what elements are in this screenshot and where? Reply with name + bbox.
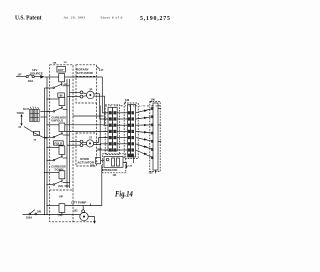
rotary actuator motor M1 — [83, 93, 87, 94]
wire stow to row 5 — [94, 138, 107, 143]
svg-text:YOKE: YOKE — [17, 111, 25, 115]
svg-text:UP: UP — [59, 194, 63, 198]
row 2 wires — [104, 117, 154, 119]
svg-text:14B: 14B — [53, 62, 57, 65]
svg-text:102: 102 — [73, 210, 78, 213]
svg-text:FOLD: FOLD — [54, 141, 62, 145]
row 7 wires — [104, 150, 154, 158]
wire row 4 — [65, 130, 107, 132]
svg-text:IN: IN — [60, 94, 63, 98]
connector strip 136 body — [108, 108, 113, 152]
interlock relay box — [104, 157, 123, 168]
pump module dashed enclosure — [50, 190, 96, 222]
wire rotary to row 3 — [94, 96, 107, 125]
rotary terminal posts — [80, 91, 83, 94]
rotary label box divider — [76, 75, 96, 77]
row 1 pins — [109, 107, 154, 114]
svg-text:129: 129 — [128, 166, 132, 168]
yoke feed wire 1 — [40, 111, 49, 113]
svg-text:LIFT PUMP: LIFT PUMP — [71, 200, 86, 204]
bottom supply bus — [23, 214, 80, 216]
relay IN — [47, 93, 67, 112]
svg-text:105A: 105A — [26, 216, 32, 220]
junction dots — [44, 87, 48, 215]
relay DOWN — [45, 164, 70, 185]
stow actuator terminal wires — [70, 141, 81, 143]
wire rotary to row 2 — [94, 94, 107, 119]
svg-text:15B: 15B — [90, 165, 95, 168]
svg-text:40A: 40A — [28, 79, 34, 83]
rotary actuator dashed box — [76, 65, 96, 103]
stow terminal posts — [80, 140, 83, 143]
row 4 pins — [109, 130, 154, 135]
row 1 wires — [104, 109, 154, 113]
svg-text:151: 151 — [64, 62, 68, 64]
svg-text:57: 57 — [89, 137, 92, 140]
yoke travel arrow — [21, 116, 23, 124]
strip 138 bottom pin — [128, 154, 134, 157]
12V source feed wire — [16, 76, 26, 78]
wire row 7 — [97, 149, 107, 151]
wire stow to row 6 — [94, 143, 107, 146]
svg-text:147: 147 — [18, 73, 23, 76]
pump terminal wire — [82, 206, 84, 210]
circuit breaker 40A — [26, 76, 28, 78]
power switch ON — [29, 213, 31, 215]
connector strip 136 dashed enclosure — [105, 105, 119, 155]
svg-text:Sheet 6 of 6: Sheet 6 of 6 — [101, 16, 123, 20]
relay bus B — [69, 79, 71, 188]
row 5 wires — [104, 138, 154, 142]
relay UNFOLD — [45, 115, 70, 138]
yoke output wire — [24, 127, 47, 139]
svg-text:147: 147 — [99, 68, 104, 72]
rotary actuator terminal wires — [70, 91, 81, 93]
svg-text:Jul. 29, 1993: Jul. 29, 1993 — [64, 16, 86, 21]
row 7 pins — [109, 148, 154, 159]
svg-text:100: 100 — [151, 97, 156, 101]
wire to panel with arrowhead — [34, 76, 40, 78]
junction box 77 — [34, 131, 40, 135]
svg-text:UNFOLD: UNFOLD — [51, 118, 63, 122]
row 2 pins — [109, 115, 154, 120]
relay panel dashed enclosure — [50, 65, 73, 190]
svg-text:77: 77 — [34, 139, 37, 142]
interlock ground stub — [123, 163, 127, 167]
pump ground wire — [88, 217, 94, 222]
wire corridor a — [73, 115, 104, 117]
row 6 pins — [109, 142, 154, 151]
wire corridor b — [65, 124, 105, 126]
left supply bus wire 1 — [46, 77, 48, 215]
row 3 pins — [109, 124, 154, 127]
top bus wire segment — [65, 76, 68, 78]
interlock feeder wire — [99, 106, 101, 158]
left supply bus wire 2 — [44, 88, 46, 215]
svg-text:5,190,275: 5,190,275 — [140, 16, 170, 22]
relay UP — [47, 194, 65, 217]
svg-text:121: 121 — [113, 174, 118, 177]
svg-text:ACTUATOR: ACTUATOR — [76, 71, 93, 75]
connector strip 100 body — [153, 103, 158, 170]
svg-text:61: 61 — [19, 126, 22, 129]
svg-text:125: 125 — [149, 171, 154, 174]
pump motor M3 — [80, 212, 88, 220]
relay OUT — [45, 66, 70, 88]
svg-text:66 67: 66 67 — [23, 108, 30, 111]
interlock dashed enclosure — [103, 154, 126, 173]
relay bus A — [66, 79, 68, 188]
svg-text:U.S. Patent: U.S. Patent — [15, 14, 42, 21]
svg-text:Fig.14: Fig.14 — [114, 188, 133, 198]
connector strip 138 body — [128, 105, 131, 158]
yoke selector contact bank — [30, 107, 40, 122]
stow actuator dashed box — [76, 133, 96, 166]
relay FOLD — [47, 141, 67, 161]
svg-text:50A: 50A — [65, 185, 70, 188]
svg-text:138: 138 — [125, 98, 130, 102]
row 3 wires — [104, 124, 154, 126]
svg-text:ON: ON — [37, 209, 41, 213]
label: 147 leader — [97, 67, 100, 69]
row 4 wires — [104, 131, 154, 133]
connector strip 138 dashed enclosure — [124, 103, 138, 159]
label: 100 — [151, 101, 152, 103]
node 147 riser wire — [67, 77, 107, 113]
strip 138 drop wire — [133, 158, 135, 164]
svg-text:(6A): (6A) — [58, 185, 63, 188]
strip 100 tail wire — [155, 170, 157, 174]
side connector 123 — [96, 158, 101, 164]
label: 138 — [125, 102, 126, 104]
svg-text:INTERLOCK: INTERLOCK — [102, 168, 118, 172]
svg-text:45V: 45V — [64, 83, 68, 86]
connector strip 100 dashed enclosure — [150, 102, 160, 172]
stow actuator motor M2 — [83, 141, 87, 144]
strip 100 right stub wires — [158, 108, 161, 110]
svg-text:2P: 2P — [89, 88, 92, 91]
svg-text:SOURCE: SOURCE — [30, 71, 43, 75]
dashed riser between actuator boxes — [95, 103, 97, 133]
row 6 wires — [104, 144, 154, 150]
panel feed wire — [44, 76, 58, 78]
svg-text:OUT: OUT — [58, 68, 64, 72]
yoke feed wire 2 — [40, 116, 47, 118]
row 5 pins — [109, 136, 154, 143]
lift pump feeder L wire — [65, 165, 102, 206]
